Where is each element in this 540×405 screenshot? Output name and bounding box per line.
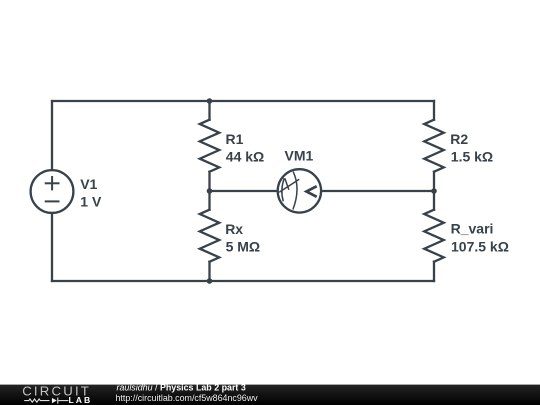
svg-text:raulsidhu / Physics Lab 2 part: raulsidhu / Physics Lab 2 part 3 xyxy=(117,382,246,392)
svg-text:VM1: VM1 xyxy=(285,148,314,164)
svg-text:5 MΩ: 5 MΩ xyxy=(226,239,261,255)
voltmeter VM1 internals xyxy=(279,172,299,210)
svg-text:107.5 kΩ: 107.5 kΩ xyxy=(451,239,509,255)
wire R1 top lead xyxy=(208,101,210,120)
wire Rx bottom lead xyxy=(208,262,210,281)
wire R1 bottom lead xyxy=(208,172,210,191)
node dot mid left (R1/Rx/VM1 junction) xyxy=(207,188,213,194)
voltage source V1 plus and minus marks xyxy=(45,176,60,201)
node dot top (R1/top rail junction) xyxy=(207,98,213,104)
voltage source V1 xyxy=(31,170,74,213)
svg-text:Rx: Rx xyxy=(225,221,243,237)
wire R2 bottom lead xyxy=(433,172,435,191)
svg-text:http://circuitlab.com/cf5w864n: http://circuitlab.com/cf5w864nc96wv xyxy=(116,393,259,403)
voltmeter VM1 pointer mark xyxy=(306,186,316,197)
wire top rail xyxy=(52,100,434,102)
node dot mid right (R2/R_vari/VM1 junction) xyxy=(431,188,437,194)
wire R_vari top lead xyxy=(433,191,435,210)
svg-text:LAB: LAB xyxy=(69,395,93,405)
wire left branch top (V1 to top rail) xyxy=(51,101,53,170)
wire mid rail right (VM1 to R2 node) xyxy=(322,190,434,192)
wire left branch bottom (V1 to bottom rail) xyxy=(51,213,53,281)
node dot bottom (Rx/bottom rail junction) xyxy=(207,278,213,284)
wire R_vari bottom lead xyxy=(433,262,435,281)
logo resistor squiggle xyxy=(24,398,68,404)
svg-text:44 kΩ: 44 kΩ xyxy=(226,149,264,165)
resistor Rx xyxy=(200,210,220,262)
svg-text:V1: V1 xyxy=(80,176,97,192)
svg-text:R1: R1 xyxy=(226,131,244,147)
voltmeter VM1 xyxy=(278,169,321,212)
wire R2 top lead xyxy=(433,101,435,120)
svg-text:R2: R2 xyxy=(450,131,468,147)
wire mid rail left (node to VM1) xyxy=(210,190,278,192)
resistor R2 xyxy=(424,120,444,172)
svg-text:R_vari: R_vari xyxy=(451,221,494,237)
svg-text:1.5 kΩ: 1.5 kΩ xyxy=(451,149,493,165)
wire bottom rail xyxy=(52,280,434,282)
resistor R1 xyxy=(200,120,220,172)
resistor R_vari xyxy=(424,210,444,262)
wire Rx top lead xyxy=(208,191,210,210)
svg-text:1 V: 1 V xyxy=(80,193,102,209)
logo diode xyxy=(52,398,57,403)
